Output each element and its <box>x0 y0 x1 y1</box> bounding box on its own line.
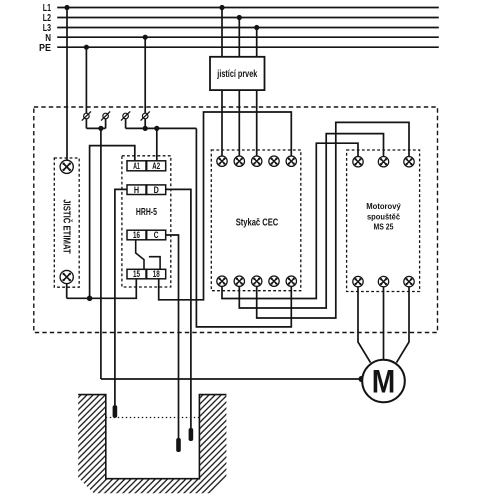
svg-text:jistící prvek: jistící prvek <box>217 68 258 80</box>
contactor top terminal 2 <box>234 156 244 166</box>
probe low electrode <box>176 438 181 452</box>
disconnect contact 2 <box>101 111 110 120</box>
wire contactor output 3 to starter input 3 <box>257 122 409 318</box>
relay contact fixed 18 <box>149 257 160 270</box>
breaker JISTIC ETIMAT dashed box <box>54 158 79 287</box>
disconnect contact 3 <box>121 111 130 120</box>
contactor bottom terminal 3 <box>252 276 262 286</box>
wire relay 18 to contactor coil top <box>159 112 292 300</box>
contactor top terminal 4 <box>269 156 279 166</box>
wire breaker bottom to node <box>66 284 68 299</box>
wire fuse box to contactor terminal 1 <box>221 90 223 156</box>
junction on L1 feeding breaker <box>64 5 69 10</box>
wire relay H to high probe <box>115 189 127 405</box>
disconnect contact 1 <box>82 111 91 120</box>
relay terminal H <box>127 185 146 195</box>
starter bottom terminal 3 <box>404 276 414 286</box>
wire joining contacts 3 and 4 to N rail <box>126 127 197 129</box>
relay HRH-5 dashed box <box>122 156 171 287</box>
svg-text:Stykač CEC: Stykač CEC <box>236 217 279 228</box>
wire L1 bus line <box>57 7 439 9</box>
relay terminal 15 <box>127 269 146 279</box>
svg-text:MS 25: MS 25 <box>374 222 394 232</box>
wire contactor output 2 to starter input 2 <box>239 134 383 308</box>
contactor bottom terminal 1 <box>217 276 227 286</box>
relay terminal D <box>147 185 166 195</box>
svg-text:Motorový: Motorový <box>366 201 401 211</box>
svg-text:15: 15 <box>133 269 140 279</box>
contactor Stykac CEC dashed box <box>211 150 300 291</box>
relay terminal 18 <box>147 269 166 279</box>
contactor top terminal 1 <box>217 156 227 166</box>
well outline left wall <box>78 395 226 479</box>
svg-text:H: H <box>134 185 139 195</box>
wire contactor output 1 to starter input 1 <box>222 143 358 298</box>
svg-text:JISTIČ ETIMAT: JISTIČ ETIMAT <box>60 199 73 254</box>
starter top terminal 2 <box>378 157 388 167</box>
wire contact 2 stub <box>105 119 107 129</box>
contactor bottom terminal 4 <box>269 276 279 286</box>
svg-text:16: 16 <box>133 230 140 240</box>
junction PE node <box>98 126 103 131</box>
wire contact 3 stub <box>125 119 127 129</box>
junction on L2 feeding fuse box <box>237 15 242 20</box>
relay contact arm 16 to 15 <box>136 240 144 269</box>
wire fuse box to contactor terminal 3 <box>256 90 258 156</box>
wire N rail to relay A2 <box>156 128 158 160</box>
wire starter output 3 to motor <box>397 287 410 363</box>
wire contact 1 stub <box>85 119 87 129</box>
breaker top terminal <box>60 160 73 173</box>
junction on L1 feeding fuse box <box>219 5 224 10</box>
contactor top terminal 3 <box>252 156 262 166</box>
junction on N feeding contact 4 <box>143 35 148 40</box>
breaker bottom terminal <box>60 270 73 283</box>
svg-text:A2: A2 <box>152 161 160 171</box>
motor M1 <box>362 360 405 403</box>
fuse element box jisticí prvek <box>210 57 265 90</box>
wire starter output 1 to motor <box>358 287 371 363</box>
wire L3 bus line <box>57 27 439 29</box>
wire PE down to contact 1 <box>85 47 87 113</box>
svg-text:M: M <box>372 364 396 400</box>
starter bottom terminal 2 <box>378 276 388 286</box>
junction main supply node <box>87 296 93 302</box>
contactor top terminal 5 <box>286 156 296 166</box>
wire fuse box to contactor terminal 2 <box>238 90 240 156</box>
wire contact 4 stub <box>144 119 146 129</box>
wire relay D to middle probe <box>166 189 191 428</box>
svg-text:HRH-5: HRH-5 <box>136 207 157 218</box>
junction at motor frame <box>359 376 365 382</box>
disconnect contact 4 <box>141 111 150 120</box>
svg-text:D: D <box>154 185 160 195</box>
svg-text:C: C <box>154 230 159 240</box>
svg-text:A1: A1 <box>133 161 140 171</box>
starter bottom terminal 1 <box>353 276 363 286</box>
wire L3 to fuse box <box>256 28 258 57</box>
wire starter output 2 to motor <box>383 287 385 360</box>
wire L1 to fuse box <box>221 8 223 57</box>
relay terminal A1 <box>127 161 146 171</box>
probe middle electrode <box>189 428 194 441</box>
relay terminal A2 <box>147 161 166 171</box>
wire relay C to low probe <box>166 235 179 438</box>
junction on PE feeding probe circuit <box>84 45 89 50</box>
enclosure dashed outline <box>34 107 438 333</box>
svg-text:18: 18 <box>153 269 160 279</box>
well hatched walls <box>78 395 226 494</box>
wire L2 bus line <box>57 17 439 19</box>
water level dotted line <box>106 417 200 419</box>
starter top terminal 1 <box>353 157 363 167</box>
relay terminal C <box>147 230 166 240</box>
wire PE node to motor frame <box>101 378 363 380</box>
wire N bus line <box>57 36 439 38</box>
wire supply node up to relay A1 <box>90 146 135 299</box>
svg-text:spouštěč: spouštěč <box>367 211 400 221</box>
wire node horizontal to relay 15 <box>67 279 137 299</box>
contactor bottom terminal 5 <box>286 276 296 286</box>
probe high electrode <box>113 405 118 418</box>
starter top terminal 3 <box>404 157 414 167</box>
junction contact 4 on N rail <box>143 126 148 131</box>
wire PE node down to motor feed <box>100 128 102 379</box>
wire N down to contact 4 <box>144 37 146 113</box>
wire L1 to breaker top terminal <box>66 8 68 161</box>
wire PE bus line <box>57 46 439 48</box>
wire L2 to fuse box <box>238 18 240 57</box>
svg-text:PE: PE <box>39 43 51 54</box>
relay terminal 16 <box>127 230 146 240</box>
junction on L3 feeding fuse box <box>254 25 259 30</box>
starter label Motorovy spoustec MS 25 <box>366 201 401 231</box>
wire N rail down right side to contactor coil <box>196 128 291 327</box>
wire joining contacts 1 and 2 <box>86 127 105 129</box>
contactor bottom terminal 2 <box>234 276 244 286</box>
junction A2 tap on N rail <box>154 126 159 131</box>
motor starter MS 25 dashed box <box>347 150 420 292</box>
